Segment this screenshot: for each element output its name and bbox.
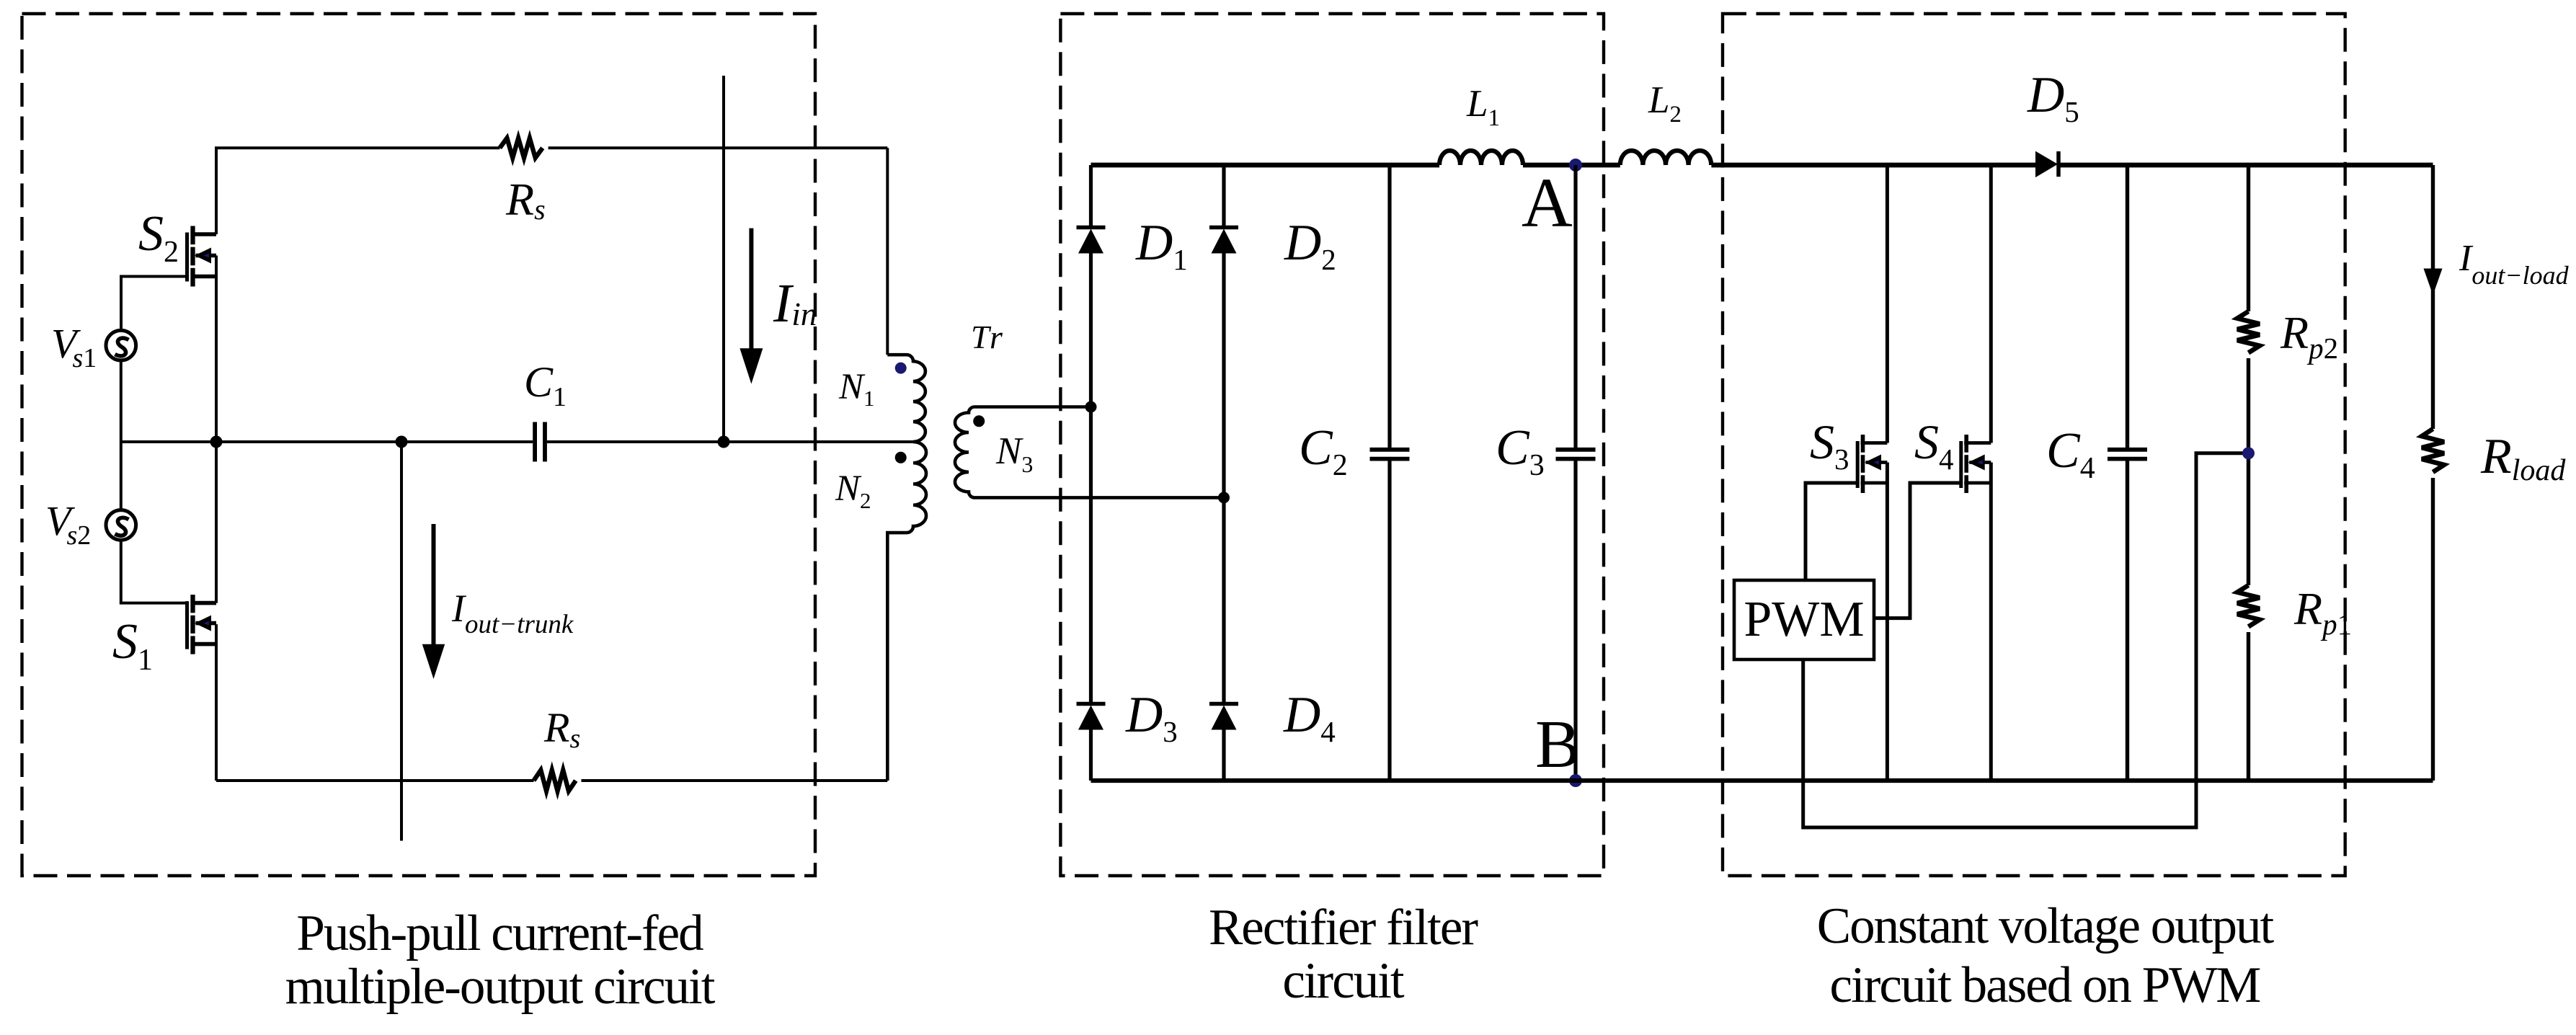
transistor S2 drain lead [191,232,217,236]
dashed box: push-pull current-fed multiple-output circuit [22,14,816,876]
wire Vs1 to Vs2 [120,360,123,511]
arrow Iout-trunk [432,524,436,649]
svg-text:A: A [1522,164,1573,242]
capacitor C4 [2108,448,2147,452]
wire D1 anode down through N3 junction to D3 [1089,253,1093,703]
wire S3 drain from rail [1886,165,1889,443]
transformer primary winding N2 [887,442,926,781]
transistor S4 gate bar [1959,441,1963,488]
transformer secondary winding N3 [955,407,1224,498]
wire C4 column top [2126,165,2129,448]
node: feedback junction dot (navy) [2242,447,2255,459]
wire C3 column top (node A) [1573,165,1577,448]
node: N3 bottom lead junction [1218,492,1230,503]
transistor S1 body arrow [196,621,217,626]
resistor Rp1 [2237,585,2260,626]
transistor S4 drain lead [1964,441,1991,445]
node: N3 top lead junction [1085,401,1097,413]
wire S2 gate lead to Vs1 [121,277,187,331]
capacitor C3 [1556,448,1596,452]
svg-text:Rectifier filter: Rectifier filter [1209,899,1478,956]
dashed box: constant voltage output circuit [1723,14,2345,876]
transformer primary winding N1 [887,355,925,442]
PWM block [1734,580,1874,659]
transistor S1 channel bar [190,595,195,613]
wire D3 anode to bottom rail [1089,730,1093,781]
transistor S4 channel bar [1964,435,1968,453]
transistor S3 body arrow [1866,461,1888,464]
svg-text:PWM: PWM [1744,592,1864,647]
transistor S2 channel bar [190,226,195,245]
wire S4 source to bottom rail [1989,463,1993,781]
wire Vs2 to S1 gate [121,539,187,603]
wire top rail D5 to load [2060,163,2433,168]
transistor S4 source lead [1964,481,1991,485]
arrow Iout-load [2424,269,2443,296]
resistor Rp2 [2237,311,2260,352]
wire middle rail right [547,440,913,443]
transistor S2 gate bar [185,233,189,282]
node A dot [1569,159,1582,172]
wire input Iin [722,76,725,442]
winding dot N3 [973,415,985,427]
transistor S1 gate bar [185,601,189,649]
svg-text:Constant voltage output: Constant voltage output [1817,898,2275,954]
wire S2 source down to mid rail [215,256,218,443]
wire Rp2 column from rail [2247,165,2250,311]
wire S4 drain from rail [1989,165,1993,443]
node: junction S1/S2 on mid rail [210,436,223,448]
wire S3 source to bottom rail [1886,463,1889,781]
source Vs1 [106,330,136,360]
wire S1 drain up to mid rail [215,442,218,603]
wire trunk output [400,442,403,841]
wire bottom rail rectifier to load [1091,778,2433,783]
transistor S3 drain lead [1861,441,1888,445]
resistor Rs (top) [499,138,542,158]
capacitor C2 [1370,448,1410,452]
wire D2 column top [1222,165,1225,228]
transistor S2 body arrow [196,254,217,258]
transistor S3 source lead [1861,481,1888,485]
svg-text:B: B [1535,707,1581,782]
arrow Iin [749,228,753,353]
resistor Rload [2422,429,2444,472]
wire D2 anode down through N3 junction to D4 [1222,253,1225,703]
svg-text:multiple-output circuit: multiple-output circuit [285,959,716,1015]
wire top rail left segment [216,148,499,234]
wire bottom rail left segment [216,779,534,782]
wire D4 anode to bottom rail [1222,730,1225,781]
diode D1 [1077,226,1106,230]
transistor S3 gate bar [1856,441,1860,488]
wire D1 column top [1089,165,1093,228]
wire S3 gate lead to PWM [1806,483,1857,580]
svg-text:Tr: Tr [971,319,1005,355]
diode D2 [1209,226,1238,230]
transistor S1 drain lead [191,601,217,605]
winding dot N1 (navy) [895,363,907,374]
dashed box: rectifier filter circuit [1060,14,1604,876]
capacitor C1 [533,422,537,462]
wire Rp1 to bottom rail [2247,632,2250,781]
svg-text:circuit: circuit [1282,953,1405,1009]
transistor S4 body arrow [1969,461,1991,464]
transistor S2 source lead [191,275,217,279]
wire C2 column top [1387,165,1391,448]
wire Rp2 to junction [2247,358,2250,585]
svg-text:Push-pull current-fed: Push-pull current-fed [296,905,703,961]
node: junction trunk output on mid rail [396,436,408,448]
wire transformer primary top [886,148,889,355]
diode D3 [1077,702,1106,706]
inductor L2 [1620,151,1711,165]
wire S4 gate lead to PWM right [1874,483,1961,618]
wire bottom rail right segment [582,779,888,782]
wire rectifier top rail [1091,163,1440,168]
wire middle rail left [121,440,533,443]
node B dot [1569,774,1582,787]
wire top rail L2 to D5 [1711,163,2035,168]
wire S1 source down to bottom rail [215,624,218,781]
svg-text:circuit based on PWM: circuit based on PWM [1830,957,2261,1013]
wire load column with Iout-load arrow [2431,165,2435,429]
inductor L1 [1439,151,1523,165]
diode D5 [2035,151,2058,178]
node: junction Iin on mid rail [718,436,730,448]
wire Rload to bottom rail [2431,478,2435,781]
transistor S1 source lead [191,642,217,647]
wire PWM feedback path [1803,453,2249,827]
source Vs2 [106,510,136,541]
wire top rail right segment [548,146,888,149]
diode D4 [1209,702,1238,706]
transistor S3 channel bar [1861,435,1865,453]
resistor Rs (bottom) [534,770,576,791]
winding dot N2 [895,452,907,463]
wire top rail L1 to L2 [1523,163,1620,168]
